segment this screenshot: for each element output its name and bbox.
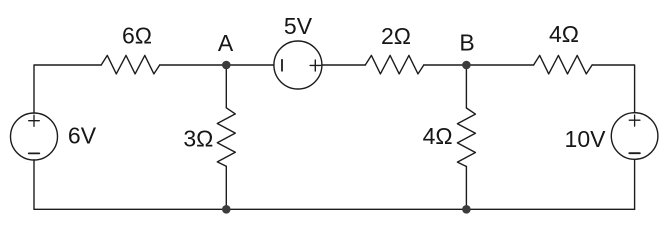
resistor R 3ohm (middle branch, vertical zigzag) xyxy=(217,108,235,167)
10V minus sign (bottom inside circle) xyxy=(629,152,640,154)
svg-text:6V: 6V xyxy=(68,122,97,148)
node B junction dot (top) xyxy=(462,61,471,70)
5V minus terminal bar (left inside circle) xyxy=(281,60,283,71)
wire node B down to 4ohm (middle) xyxy=(465,65,467,108)
svg-text:3Ω: 3Ω xyxy=(183,126,213,152)
wire 6V source to bottom-left corner xyxy=(33,160,35,209)
wire 5V source to 2ohm xyxy=(322,64,365,66)
bottom wire (full width) xyxy=(34,208,635,210)
voltage source V 10V (circle, right branch) xyxy=(611,113,658,160)
svg-text:10V: 10V xyxy=(565,126,607,152)
svg-text:2Ω: 2Ω xyxy=(381,23,411,49)
svg-text:6Ω: 6Ω xyxy=(122,23,152,49)
svg-text:4Ω: 4Ω xyxy=(423,123,453,149)
wire 2ohm to node B to 4ohm xyxy=(424,64,534,66)
resistor R 4ohm (middle branch, vertical zigzag) xyxy=(457,108,475,167)
wire 6ohm to node A to 5V source xyxy=(160,64,274,66)
voltage source V 6V (circle, left branch) xyxy=(11,113,58,160)
node A junction dot (top) xyxy=(222,61,231,70)
10V plus sign (top inside circle) xyxy=(629,115,640,126)
wire 4ohm middle to bottom node xyxy=(465,167,467,210)
svg-text:4Ω: 4Ω xyxy=(549,21,579,47)
wire node A down to 3ohm xyxy=(225,65,227,108)
voltage source V 5V (circle, series in top wire) xyxy=(274,41,322,89)
svg-text:5V: 5V xyxy=(284,13,313,39)
6V minus sign (bottom inside circle) xyxy=(29,152,40,154)
5V plus sign (right inside circle) xyxy=(310,60,321,71)
svg-text:A: A xyxy=(218,30,234,56)
resistor R 4ohm (top right, horizontal zigzag) xyxy=(534,55,593,74)
6V plus sign (top inside circle) xyxy=(29,115,40,126)
bottom junction dot under B xyxy=(462,205,471,214)
resistor R 6ohm (top left, horizontal zigzag) xyxy=(101,55,160,74)
resistor R 2ohm (top middle, horizontal zigzag) xyxy=(365,55,424,74)
bottom junction dot under A xyxy=(222,205,231,214)
wire 10V source to bottom-right corner xyxy=(634,159,636,209)
wire top-left: corner to 6ohm xyxy=(34,65,101,113)
wire 4ohm to top-right corner down to 10V source xyxy=(592,65,635,113)
wire 3ohm to bottom node xyxy=(225,166,227,209)
svg-text:B: B xyxy=(459,30,474,56)
